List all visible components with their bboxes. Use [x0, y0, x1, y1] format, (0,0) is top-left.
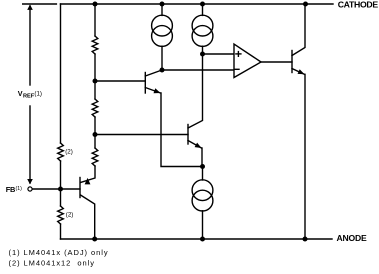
- svg-text:(1): (1): [34, 90, 42, 97]
- svg-text:(2): (2): [65, 148, 73, 155]
- svg-text:CATHODE: CATHODE: [338, 0, 379, 9]
- svg-text:ANODE: ANODE: [337, 233, 368, 243]
- svg-text:(1): (1): [16, 186, 23, 192]
- svg-text:REF: REF: [23, 93, 35, 99]
- svg-text:(2): (2): [66, 212, 74, 219]
- svg-text:FB: FB: [6, 185, 15, 194]
- svg-text:(1) LM4041x (ADJ) only: (1) LM4041x (ADJ) only: [9, 248, 109, 257]
- svg-text:(2) LM4041x12 only: (2) LM4041x12 only: [9, 259, 95, 268]
